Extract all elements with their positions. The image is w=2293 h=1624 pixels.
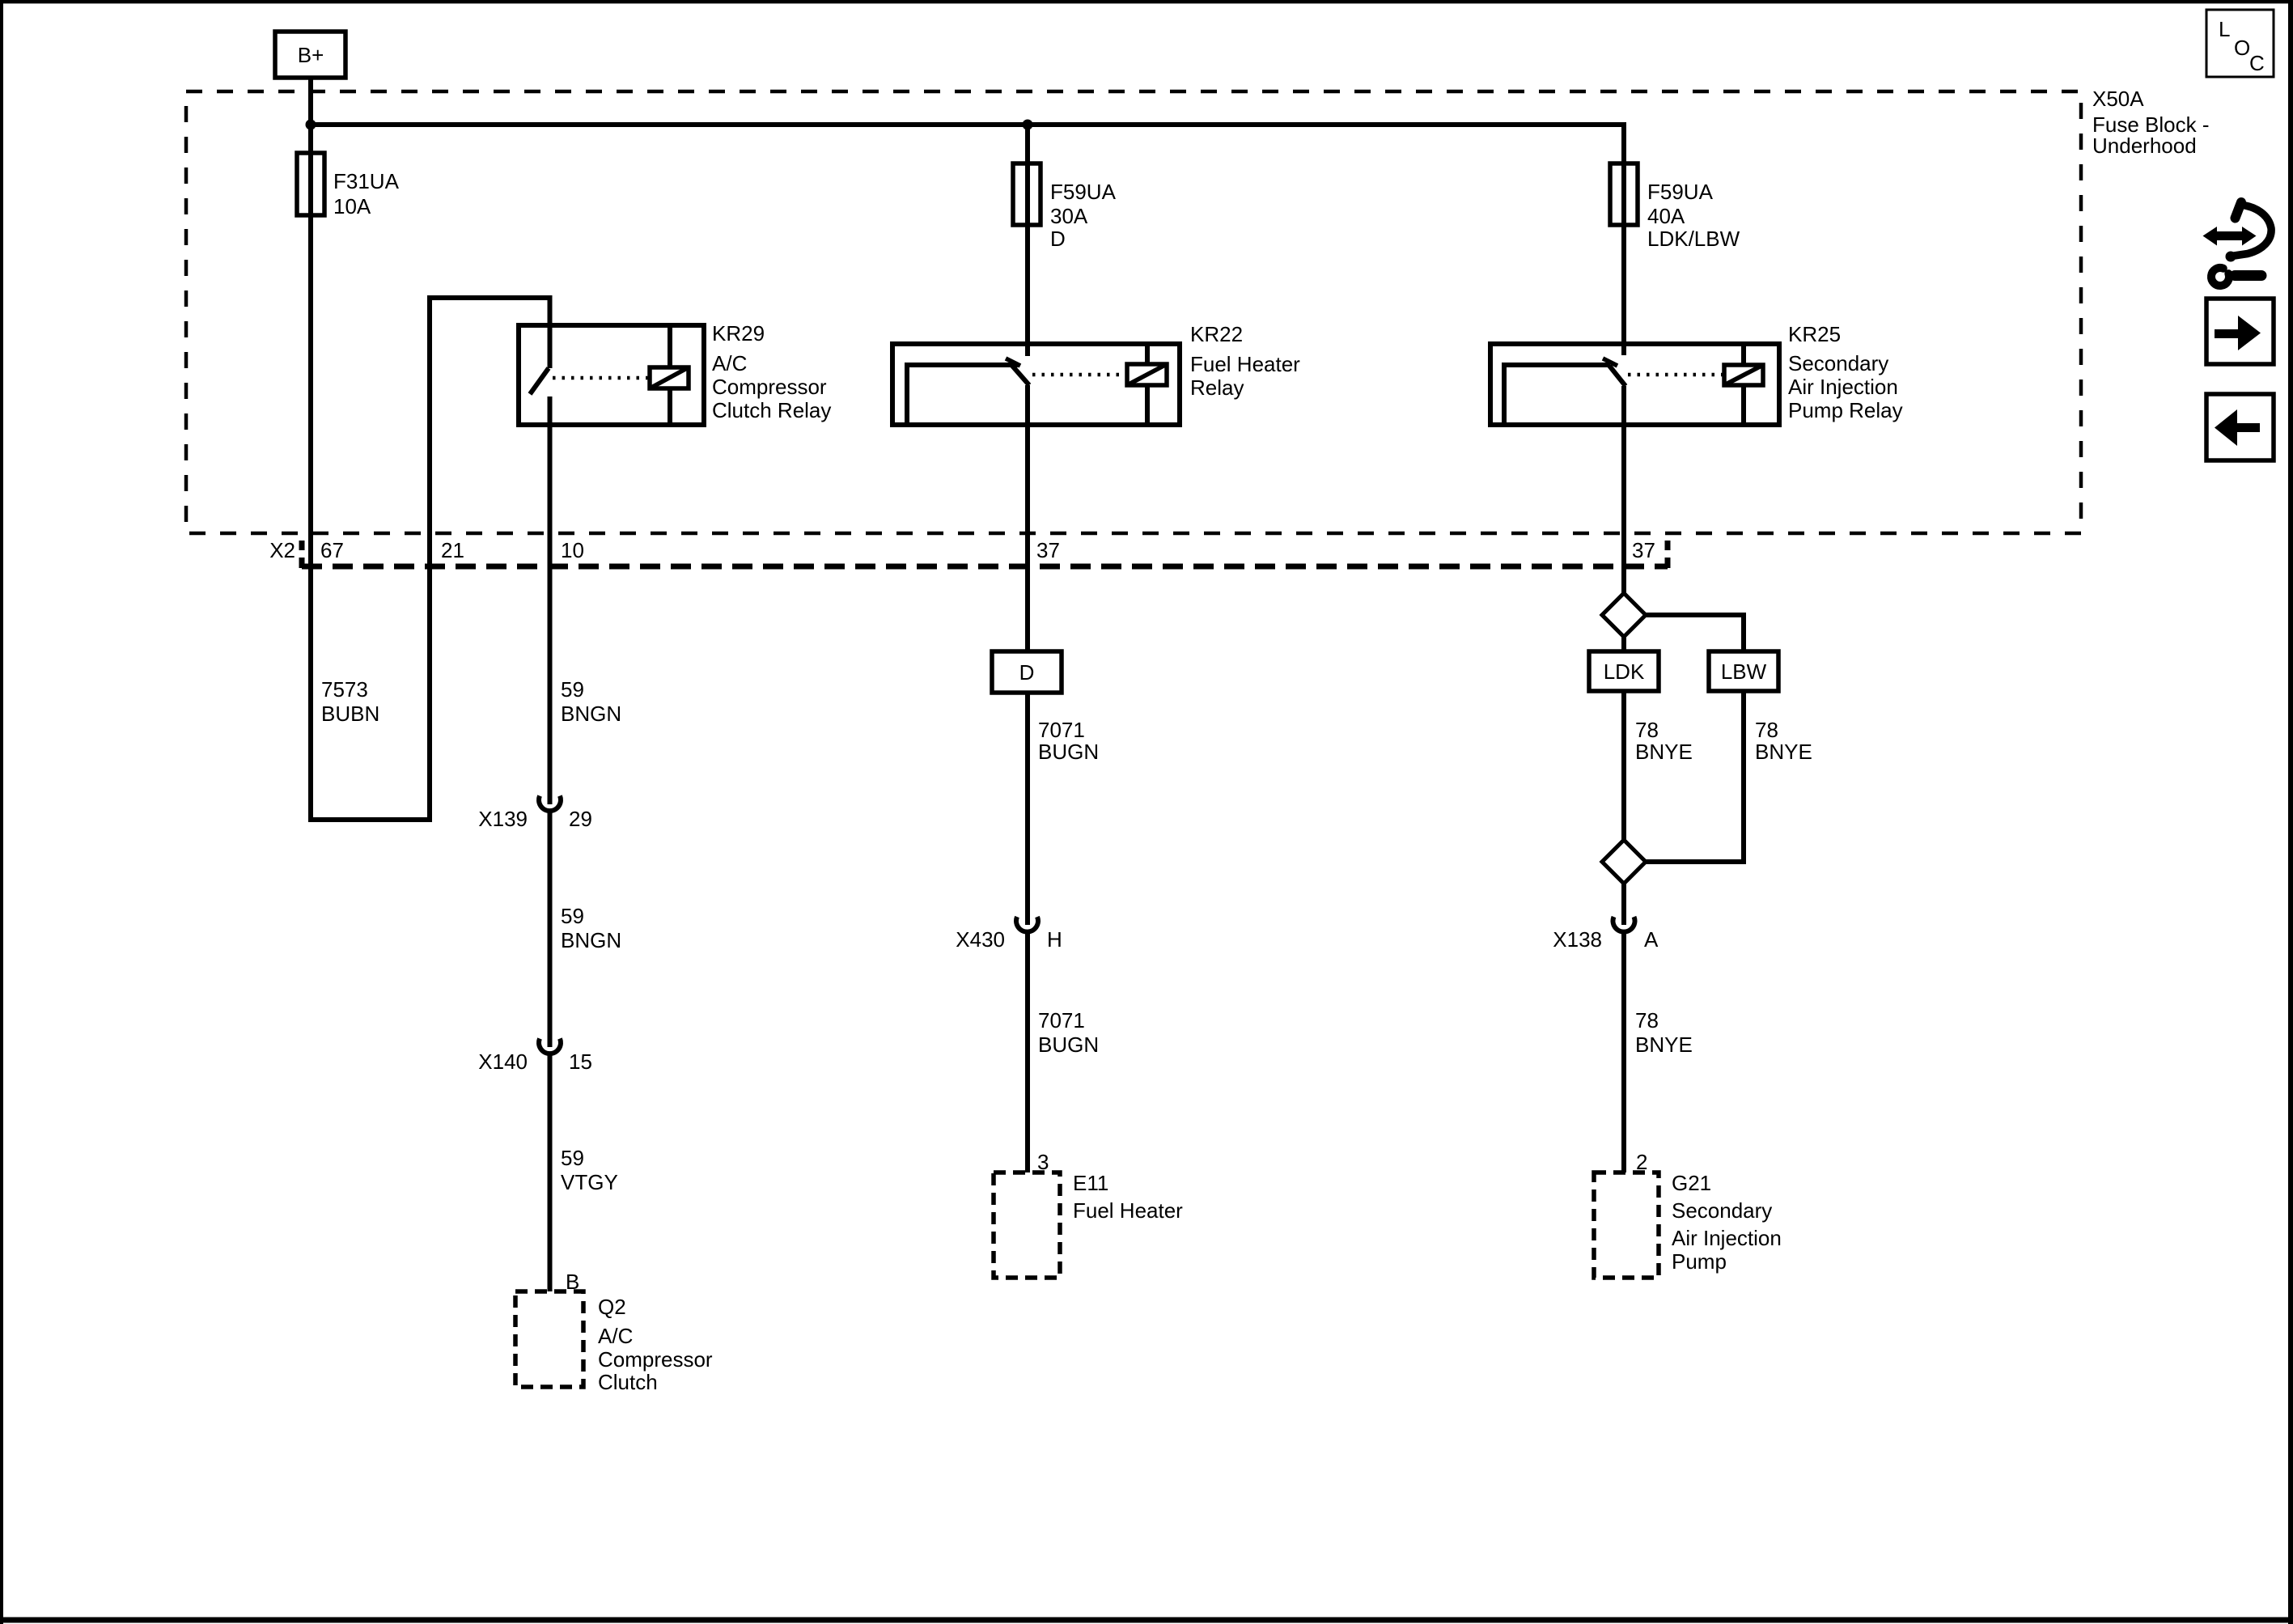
bus wire from junction to right fuse	[311, 125, 1624, 163]
svg-text:Clutch: Clutch	[598, 1370, 658, 1394]
svg-text:LDK: LDK	[1604, 659, 1645, 684]
relay KR22 contact tick	[1006, 358, 1020, 366]
wire D box to X430	[1025, 693, 1030, 925]
splice pack D box	[992, 651, 1062, 693]
next-page arrow box	[2206, 299, 2274, 364]
svg-text:30A: 30A	[1050, 204, 1088, 228]
svg-text:40A: 40A	[1647, 204, 1685, 228]
svg-text:X2: X2	[269, 538, 295, 562]
X2 left end tick	[299, 541, 305, 568]
wire LBW to lower splice	[1646, 691, 1744, 862]
svg-text:78: 78	[1755, 718, 1778, 742]
relay KR22 coil stubs	[1145, 344, 1150, 425]
svg-text:C: C	[2249, 51, 2265, 75]
splice diamond lower	[1602, 840, 1646, 884]
wire left: fuse through U-jog into KR29	[311, 125, 550, 820]
in-line connector X138	[1613, 917, 1634, 932]
svg-text:LDK/LBW: LDK/LBW	[1647, 227, 1740, 251]
svg-text:BNYE: BNYE	[1635, 740, 1693, 764]
wire bus to middle fuse	[1025, 125, 1030, 163]
X2 connector dashed line	[302, 564, 1668, 570]
relay KR25 dotted link	[1628, 373, 1723, 377]
svg-text:7071: 7071	[1038, 718, 1085, 742]
X2 right end tick	[1665, 541, 1671, 568]
relay KR29 dotted link	[553, 376, 648, 380]
svg-text:Compressor: Compressor	[598, 1347, 713, 1372]
svg-text:KR29: KR29	[712, 321, 765, 346]
wire middle fuse into KR22	[1025, 163, 1030, 356]
svg-text:F59UA: F59UA	[1647, 180, 1714, 204]
wire right fuse into KR25	[1621, 163, 1626, 355]
splice diamond upper	[1602, 593, 1646, 637]
svg-text:X139: X139	[478, 807, 528, 831]
svg-text:G21: G21	[1672, 1171, 1711, 1195]
svg-text:Air Injection: Air Injection	[1672, 1226, 1782, 1250]
component E11 dashed box	[994, 1172, 1060, 1278]
svg-text:7573: 7573	[321, 677, 368, 702]
svg-text:Fuel Heater: Fuel Heater	[1190, 352, 1300, 376]
svg-text:Pump Relay: Pump Relay	[1788, 398, 1903, 422]
fuse block X50A dashed boundary	[186, 91, 2081, 533]
svg-text:Pump: Pump	[1672, 1249, 1727, 1274]
svg-text:LBW: LBW	[1721, 659, 1767, 684]
svg-text:X50A: X50A	[2092, 87, 2144, 111]
wrench double-arrow icon	[2203, 202, 2272, 286]
svg-text:78: 78	[1635, 718, 1659, 742]
svg-text:D: D	[1019, 660, 1035, 685]
junction dot left	[306, 120, 316, 130]
svg-text:37: 37	[1036, 538, 1060, 562]
relay KR25 contact tick	[1603, 358, 1617, 366]
relay KR25 coil	[1724, 365, 1763, 385]
svg-text:BNGN: BNGN	[561, 702, 621, 726]
svg-text:O: O	[2234, 36, 2250, 60]
relay KR22 box	[892, 344, 1180, 425]
relay KR29 coil stubs	[668, 325, 672, 425]
svg-text:59: 59	[561, 1146, 584, 1170]
svg-text:29: 29	[569, 807, 592, 831]
junction dot middle	[1023, 120, 1033, 130]
wire lower splice to X138	[1621, 884, 1626, 925]
svg-text:H: H	[1047, 927, 1062, 952]
component Q2 dashed box	[515, 1291, 583, 1387]
wire X430 to E11	[1025, 932, 1030, 1172]
wire X139 to X140	[548, 812, 553, 1047]
wire splice to LDK	[1621, 637, 1626, 651]
svg-text:BNYE: BNYE	[1635, 1032, 1693, 1057]
prev-page arrow	[2215, 409, 2260, 446]
in-line connector X139	[539, 796, 561, 812]
svg-text:10: 10	[561, 538, 584, 562]
relay KR25 coil diagonal	[1724, 365, 1763, 385]
svg-text:A/C: A/C	[598, 1324, 633, 1348]
relay KR22 dotted link	[1032, 373, 1125, 377]
svg-text:KR22: KR22	[1190, 322, 1243, 346]
relay KR29 switch blade	[530, 368, 549, 394]
svg-text:78: 78	[1635, 1008, 1659, 1032]
component G21 dashed box	[1594, 1172, 1659, 1278]
relay KR22 coil	[1127, 364, 1167, 385]
svg-text:KR25: KR25	[1788, 322, 1841, 346]
svg-text:BNGN: BNGN	[561, 928, 621, 952]
fuse F59UA 30A	[1013, 163, 1041, 225]
svg-text:BNYE: BNYE	[1755, 740, 1812, 764]
svg-text:Secondary: Secondary	[1672, 1198, 1772, 1223]
svg-text:Clutch Relay: Clutch Relay	[712, 398, 831, 422]
B+ power feed box	[275, 32, 345, 78]
svg-text:Secondary: Secondary	[1788, 351, 1888, 375]
svg-text:67: 67	[320, 538, 344, 562]
prev-page arrow box	[2206, 394, 2274, 460]
fuse F59UA 40A	[1610, 163, 1638, 225]
wire KR25 output to upper splice	[1621, 386, 1626, 593]
svg-text:Air Injection: Air Injection	[1788, 375, 1898, 399]
wire B+ down to bus junction	[308, 78, 313, 125]
in-line connector X140	[539, 1039, 561, 1054]
svg-text:A: A	[1644, 927, 1659, 952]
relay KR22 switch blade	[1012, 366, 1029, 385]
svg-text:Underhood: Underhood	[2092, 134, 2197, 158]
svg-text:59: 59	[561, 904, 584, 928]
relay KR22 coil diagonal	[1127, 364, 1167, 385]
svg-text:59: 59	[561, 677, 584, 702]
svg-text:37: 37	[1632, 538, 1655, 562]
svg-text:E11: E11	[1073, 1171, 1108, 1195]
relay KR25 coil stubs	[1741, 344, 1746, 425]
splice pack LBW box	[1709, 651, 1778, 691]
svg-text:A/C: A/C	[712, 351, 747, 375]
relay KR25 box	[1490, 344, 1779, 425]
svg-text:21: 21	[441, 538, 464, 562]
relay KR25 internal L-wire	[1504, 365, 1610, 425]
relay KR22 internal L-wire	[907, 365, 1018, 425]
svg-text:X140: X140	[478, 1049, 528, 1074]
svg-text:F59UA: F59UA	[1050, 180, 1117, 204]
svg-text:F31UA: F31UA	[333, 169, 400, 193]
svg-text:VTGY: VTGY	[561, 1170, 618, 1194]
page border frame	[0, 0, 2293, 3]
svg-text:L: L	[2219, 17, 2230, 41]
wire KR22 output to D box	[1025, 385, 1030, 651]
svg-text:B+: B+	[298, 43, 324, 67]
wire X138 to G21	[1621, 932, 1626, 1172]
relay KR29 box	[519, 325, 704, 425]
LOC reference box	[2206, 10, 2274, 77]
wire X140 to Q2	[548, 1054, 553, 1291]
svg-text:15: 15	[569, 1049, 592, 1074]
relay KR29 coil	[650, 367, 689, 388]
svg-text:10A: 10A	[333, 194, 371, 218]
svg-text:Compressor: Compressor	[712, 375, 827, 399]
relay KR29 coil diagonal	[650, 367, 689, 388]
svg-text:Q2: Q2	[598, 1295, 626, 1319]
svg-text:BUBN: BUBN	[321, 702, 379, 726]
relay KR25 switch blade	[1609, 366, 1625, 386]
svg-text:Fuel Heater: Fuel Heater	[1073, 1198, 1183, 1223]
svg-text:BUGN: BUGN	[1038, 740, 1099, 764]
svg-text:X138: X138	[1553, 927, 1602, 952]
wire KR29 output to X139	[548, 396, 553, 804]
wire splice to LBW	[1646, 615, 1744, 651]
next-page arrow	[2215, 316, 2261, 350]
svg-text:Relay: Relay	[1190, 375, 1244, 400]
splice pack LDK box	[1589, 651, 1659, 691]
svg-text:D: D	[1050, 227, 1066, 251]
svg-text:7071: 7071	[1038, 1008, 1085, 1032]
svg-text:X430: X430	[956, 927, 1005, 952]
in-line connector X430	[1016, 917, 1038, 932]
fuse F31UA	[297, 153, 324, 215]
svg-text:BUGN: BUGN	[1038, 1032, 1099, 1057]
wire LDK to lower splice	[1621, 691, 1626, 840]
